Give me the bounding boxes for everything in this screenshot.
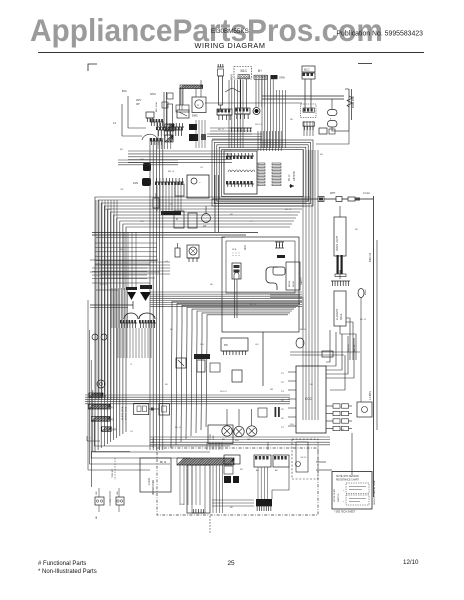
node lo-roundbox bbox=[273, 267, 285, 275]
svg-text:RD 14: RD 14 bbox=[250, 304, 257, 306]
wire mesh-cross-2 bbox=[150, 292, 302, 307]
svg-text:UPPER OVEN: UPPER OVEN bbox=[153, 480, 155, 495]
switch S2 bbox=[197, 360, 205, 372]
svg-text:BN 14: BN 14 bbox=[285, 209, 292, 211]
node date-code bbox=[403, 559, 419, 566]
svg-text:R: R bbox=[176, 217, 178, 221]
wire latch-arrow bbox=[90, 301, 133, 309]
node vbox-2 bbox=[334, 291, 346, 326]
svg-text:BAKE: BAKE bbox=[340, 313, 343, 320]
wire mesh-cross-1 bbox=[100, 262, 170, 274]
node ll-arrow bbox=[87, 436, 100, 441]
wire top-bus1 bbox=[262, 96, 344, 99]
connector bb-comb2 bbox=[192, 509, 205, 513]
node dlt-text bbox=[232, 249, 239, 256]
svg-text:ELEM: ELEM bbox=[293, 281, 295, 287]
node lower-section-box bbox=[153, 448, 318, 515]
wire corner-345 bbox=[330, 355, 345, 390]
connector tl-comb bbox=[230, 128, 252, 132]
svg-text:RD: RD bbox=[355, 229, 359, 231]
wire oven-line3 bbox=[342, 198, 348, 200]
node grn-splice bbox=[271, 75, 285, 80]
wire left-edge-wires bbox=[88, 300, 230, 470]
node ll-dash-v bbox=[112, 458, 115, 480]
node broil-tube bbox=[266, 267, 278, 290]
relay K1 bbox=[177, 110, 189, 118]
svg-text:WHT: WHT bbox=[330, 192, 336, 195]
node door-lock-box bbox=[140, 458, 171, 492]
node dark-bar bbox=[194, 354, 210, 359]
svg-text:P6: P6 bbox=[224, 343, 228, 347]
switch S1 bbox=[176, 358, 186, 368]
node label-col bbox=[113, 89, 127, 125]
wire mesh-right-loop bbox=[303, 150, 318, 420]
svg-text:WH: WH bbox=[290, 424, 294, 426]
wire h-134 bbox=[207, 134, 262, 139]
wire v-bundle-board2 bbox=[262, 75, 286, 148]
node vtext-col1 bbox=[121, 406, 128, 420]
wire bb-tail bbox=[209, 516, 211, 533]
svg-text:GN: GN bbox=[255, 344, 259, 346]
node bb-boxes-1 bbox=[224, 455, 240, 474]
wire long-vert-377 bbox=[376, 240, 378, 430]
connector SV1 bbox=[146, 112, 154, 122]
svg-text:BLK: BLK bbox=[122, 89, 127, 93]
svg-text:B1C: B1C bbox=[241, 69, 248, 73]
wire eoc-left-stubs bbox=[288, 372, 296, 426]
svg-text:GY: GY bbox=[165, 261, 169, 263]
svg-text:WH 14: WH 14 bbox=[255, 124, 262, 126]
svg-text:EOC: EOC bbox=[305, 397, 313, 401]
svg-text:TRIM KIT: TRIM KIT bbox=[112, 468, 114, 478]
wire bb-to-eoc bbox=[316, 462, 332, 470]
op-amp EOC-board bbox=[296, 366, 326, 433]
node label-SSV bbox=[136, 92, 156, 106]
wire bb-corner bbox=[272, 467, 289, 499]
svg-text:BAKE 40W: BAKE 40W bbox=[352, 96, 355, 108]
svg-text:B1C: B1C bbox=[304, 68, 311, 72]
svg-text:Publication No. 5995583423: Publication No. 5995583423 bbox=[336, 31, 423, 38]
lamp OL2 bbox=[328, 118, 338, 132]
svg-text:CAVITY: CAVITY bbox=[300, 277, 303, 285]
svg-text:BRN 14: BRN 14 bbox=[368, 252, 372, 262]
wire capsule-drop bbox=[360, 297, 362, 402]
svg-text:ELEMENT: ELEMENT bbox=[336, 308, 339, 320]
motor M1 bbox=[222, 409, 232, 436]
wire drop-cluster bbox=[158, 131, 171, 149]
svg-text:SSV: SSV bbox=[150, 92, 156, 96]
wire latch-cross bbox=[90, 260, 160, 290]
svg-text:BR 14: BR 14 bbox=[168, 171, 175, 173]
svg-text:12/10: 12/10 bbox=[403, 559, 419, 566]
svg-text:RESISTANCE CHART: RESISTANCE CHART bbox=[336, 479, 360, 482]
node blob2 bbox=[189, 134, 206, 141]
svg-text:GN: GN bbox=[247, 439, 251, 441]
capacitor C2 bbox=[175, 243, 180, 257]
node blob1 bbox=[189, 124, 197, 130]
wire bake-exit bbox=[340, 318, 356, 360]
wire left-entry bbox=[122, 96, 146, 136]
wire mesh-left-top bbox=[96, 200, 117, 400]
svg-text:CONV: CONV bbox=[210, 433, 212, 440]
svg-text:WIRING DIAGRAM: WIRING DIAGRAM bbox=[195, 41, 266, 50]
svg-text:BK 14: BK 14 bbox=[175, 427, 182, 429]
connector J2-top bbox=[155, 178, 184, 185]
diode D1 bbox=[289, 184, 294, 188]
svg-text:WH: WH bbox=[200, 344, 204, 346]
svg-text:BLK 14GA: BLK 14GA bbox=[155, 102, 158, 112]
connector eoc-pin-rows bbox=[326, 404, 352, 431]
svg-text:LP: LP bbox=[203, 224, 207, 228]
connector B1C-1 bbox=[231, 67, 252, 81]
svg-text:MIN: MIN bbox=[244, 245, 247, 250]
wire bus-right bbox=[314, 95, 347, 97]
wire b1c2-drop bbox=[305, 79, 311, 108]
lamp OL1 bbox=[328, 99, 338, 116]
node splice-ring bbox=[253, 108, 260, 115]
wire b1c1-drops bbox=[241, 79, 265, 108]
svg-text:B+: B+ bbox=[258, 69, 262, 73]
node box-pair-a bbox=[134, 403, 149, 414]
svg-text:DOOR OPEN: DOOR OPEN bbox=[334, 489, 336, 502]
node lower-oven-box bbox=[222, 237, 299, 332]
svg-text:WH: WH bbox=[140, 159, 144, 161]
wire oven-line4 bbox=[360, 198, 373, 200]
svg-text:GRN: GRN bbox=[112, 430, 117, 432]
wire b1c2-mate-drops bbox=[304, 121, 313, 136]
node bb-tall-box bbox=[187, 465, 210, 513]
switch dlb-1 bbox=[95, 488, 104, 519]
connector J2-bot bbox=[161, 211, 181, 215]
svg-text:WH 12: WH 12 bbox=[100, 284, 107, 286]
wire resistor-return bbox=[316, 131, 349, 144]
node broil-box bbox=[286, 262, 300, 290]
node oval-2 bbox=[296, 338, 304, 348]
svg-text:* Non-Illustrated Parts: * Non-Illustrated Parts bbox=[38, 569, 97, 575]
connector J9 bbox=[156, 123, 184, 130]
node model-number bbox=[211, 28, 249, 35]
node sub-box bbox=[210, 363, 220, 372]
relay R1-box bbox=[174, 211, 184, 228]
motor EMC bbox=[192, 80, 206, 118]
svg-text:BK 16: BK 16 bbox=[300, 329, 307, 331]
node term-strip-2 bbox=[91, 417, 114, 422]
connector ladder-2 bbox=[272, 163, 281, 186]
wire long-vert-373 bbox=[373, 196, 375, 497]
svg-text:GY: GY bbox=[200, 167, 204, 169]
connector inline-1 bbox=[318, 197, 324, 202]
svg-text:BLACK 14GA: BLACK 14GA bbox=[121, 406, 124, 420]
node page-number bbox=[227, 560, 235, 567]
connector lo-comb1 bbox=[275, 242, 284, 248]
wire eyebrow bbox=[225, 88, 240, 92]
node wire-gauge-labels bbox=[100, 119, 367, 509]
motor fan-M2 bbox=[133, 178, 151, 186]
svg-text:NOTE: RTD SENSOR: NOTE: RTD SENSOR bbox=[336, 476, 359, 478]
wire tl-scatter bbox=[196, 120, 252, 148]
node eoc-left-labels bbox=[281, 373, 284, 429]
svg-text:EI30BM55KS: EI30BM55KS bbox=[211, 28, 249, 35]
wire board-top-drop bbox=[258, 131, 281, 151]
relay latch-1 bbox=[127, 292, 151, 301]
connector bb-conn-2 bbox=[273, 455, 289, 472]
connector latch-comb2 bbox=[139, 320, 156, 328]
svg-text:AB MTR: AB MTR bbox=[292, 171, 296, 181]
node bb-dark-1 bbox=[224, 476, 239, 483]
op-amp control-board U1 bbox=[224, 151, 257, 194]
connector mini-comb1 bbox=[150, 119, 164, 126]
svg-text:14 GA: 14 GA bbox=[363, 192, 370, 195]
wire h-mid-left bbox=[118, 160, 178, 165]
connector emc-top-bar bbox=[176, 85, 203, 112]
svg-text:BK 12: BK 12 bbox=[218, 129, 225, 131]
svg-text:36": 36" bbox=[136, 102, 140, 106]
wire lo-bottomwires bbox=[270, 295, 303, 330]
wire bplus-drops bbox=[0, 0, 1, 1]
svg-text:SENSOR OHMS AT TEMP: SENSOR OHMS AT TEMP bbox=[373, 480, 376, 505]
svg-text:LOCK: LOCK bbox=[147, 478, 151, 485]
lamp L1-circ bbox=[92, 334, 107, 340]
node label-whtline bbox=[330, 192, 370, 195]
svg-text:OR: OR bbox=[120, 189, 124, 191]
wire bb-verticals bbox=[180, 465, 268, 513]
node term-strip-1 bbox=[89, 404, 115, 409]
svg-text:BK 14: BK 14 bbox=[105, 209, 112, 211]
svg-text:# Functional Parts: # Functional Parts bbox=[38, 561, 86, 567]
connector bb-conn-1 bbox=[254, 455, 271, 472]
connector bb-comb bbox=[256, 499, 272, 511]
connector P12 bbox=[235, 108, 250, 119]
connector latch-comb1 bbox=[120, 320, 137, 328]
svg-text:WH: WH bbox=[140, 221, 144, 223]
wire dlt-drop bbox=[235, 279, 238, 318]
node probe-jack bbox=[357, 402, 372, 417]
connector mini-comb2 bbox=[150, 138, 163, 145]
svg-text:MAIN: MAIN bbox=[231, 74, 234, 80]
svg-text:WH: WH bbox=[340, 429, 344, 431]
node corner-mark-left bbox=[88, 64, 97, 71]
node mid-wire-dash bbox=[110, 491, 112, 506]
wire oven-line bbox=[212, 198, 318, 200]
svg-text:BK 14: BK 14 bbox=[160, 462, 167, 464]
connector B1C-2 bbox=[302, 66, 315, 79]
svg-text:* SEE TECH SHEET: * SEE TECH SHEET bbox=[334, 512, 356, 514]
wire v-bundle-board bbox=[229, 80, 243, 148]
wire oven-line2 bbox=[324, 198, 336, 200]
node conn-above-motors bbox=[258, 407, 280, 417]
resistor R-line bbox=[335, 89, 355, 131]
node term-strip-3 bbox=[102, 427, 118, 432]
wire v-pair-165 bbox=[162, 92, 173, 128]
switch dlb-2 bbox=[116, 488, 124, 512]
wire mesh-vert-150 bbox=[150, 138, 163, 450]
node lo-label-cavity bbox=[300, 277, 303, 285]
svg-text:EMC: EMC bbox=[192, 114, 198, 118]
wire bb-wires bbox=[207, 442, 268, 450]
connector inline-4 bbox=[322, 351, 333, 357]
node motor-box bbox=[208, 425, 233, 444]
wire left-mid-mesh bbox=[92, 232, 157, 290]
node J9-ticks bbox=[157, 130, 183, 136]
svg-text:L1 BRN: L1 BRN bbox=[368, 391, 372, 400]
wire drop-eoc-legend bbox=[351, 433, 353, 475]
svg-text:GRN: GRN bbox=[279, 76, 285, 80]
connector vbox-comb bbox=[331, 281, 350, 286]
wire j2-drops bbox=[157, 185, 181, 211]
wire v-263 bbox=[262, 332, 264, 386]
motor M2 bbox=[234, 409, 244, 437]
relay K2 bbox=[175, 184, 184, 196]
wire bb-inner-wires bbox=[212, 500, 254, 506]
capacitor C-cyl bbox=[153, 193, 159, 208]
svg-text:WH 14: WH 14 bbox=[220, 391, 227, 393]
svg-text:OVEN LIGHT: OVEN LIGHT bbox=[336, 235, 339, 251]
relay R2-box bbox=[188, 213, 197, 228]
node fan-upper-blob bbox=[143, 163, 151, 171]
svg-text:YEL 16GA: YEL 16GA bbox=[152, 437, 155, 448]
node latch-dome2 bbox=[139, 313, 155, 319]
node vtext-col2 bbox=[152, 437, 155, 448]
node latch-bars-top bbox=[126, 285, 152, 290]
node label-abmtr bbox=[288, 171, 296, 181]
svg-text:BK 14: BK 14 bbox=[288, 174, 291, 181]
node oval-D bbox=[358, 289, 367, 298]
node vbox-1b bbox=[335, 255, 346, 277]
connector inline-3 bbox=[348, 197, 360, 201]
node title bbox=[195, 41, 266, 50]
wire h-352 bbox=[290, 352, 360, 355]
node label-min bbox=[244, 245, 247, 250]
node watermark bbox=[30, 13, 383, 48]
wire latch-drops bbox=[118, 328, 151, 358]
wire h-into-board bbox=[128, 151, 232, 163]
node wire-labels-v bbox=[348, 344, 356, 352]
wire board-routing-rings bbox=[212, 140, 313, 206]
node ll-bracket bbox=[92, 452, 131, 488]
svg-text:25: 25 bbox=[227, 560, 235, 567]
wire box-pair-link bbox=[149, 408, 159, 411]
wire title-rule bbox=[38, 52, 424, 54]
svg-text:MTR: MTR bbox=[213, 435, 215, 440]
wire v-pair-215 bbox=[215, 175, 219, 232]
node legend-box bbox=[332, 472, 376, 510]
svg-text:FAN: FAN bbox=[133, 181, 138, 185]
connector P6 bbox=[221, 338, 248, 355]
node publication-number bbox=[336, 31, 423, 38]
connector B1C-2-mate bbox=[301, 104, 317, 130]
node box-pair-b bbox=[159, 404, 170, 416]
node latch-dome1 bbox=[124, 313, 138, 319]
wire vbox-feed bbox=[339, 206, 341, 217]
node lo-darkbar bbox=[277, 255, 285, 258]
svg-text:~: ~ bbox=[199, 180, 201, 184]
node motor-labels bbox=[222, 439, 251, 442]
fuse chimney bbox=[217, 64, 224, 112]
lamp LP bbox=[202, 206, 211, 228]
wire emc-top-wires bbox=[180, 88, 183, 110]
wire mid-band-corners bbox=[171, 302, 302, 449]
wire h-bundle-395 bbox=[85, 395, 290, 404]
wire left-loop-bundle bbox=[95, 197, 310, 452]
wire corner-mark-right bbox=[358, 63, 372, 65]
node small-motor bbox=[89, 380, 107, 398]
svg-text:RD: RD bbox=[200, 459, 204, 461]
relay K3 bbox=[232, 370, 242, 382]
connector board-bottom-pins bbox=[226, 181, 254, 187]
wire eoc-entry-loops bbox=[326, 330, 354, 378]
svg-text:GY: GY bbox=[130, 431, 134, 433]
wire h-bundle-437 bbox=[150, 437, 330, 445]
node label-vert373 bbox=[368, 252, 372, 400]
motor M3 bbox=[247, 409, 257, 436]
svg-text:WHITE 14GA: WHITE 14GA bbox=[125, 406, 128, 420]
node vbox-1 bbox=[334, 217, 346, 256]
connector B2+ bbox=[254, 69, 267, 79]
svg-text:WH: WH bbox=[180, 504, 184, 506]
wire top-bus2 bbox=[205, 102, 302, 104]
svg-text:SWITCH: SWITCH bbox=[338, 493, 340, 502]
connector chimney-bar bbox=[217, 109, 232, 120]
switch arc bbox=[142, 134, 157, 140]
svg-text:MEAT: MEAT bbox=[364, 289, 367, 295]
svg-text:GN 16: GN 16 bbox=[300, 457, 307, 459]
motor conv-fan bbox=[187, 245, 199, 262]
node legend-caption bbox=[334, 512, 356, 514]
connector ladder-1 bbox=[258, 163, 265, 186]
svg-text:RD: RD bbox=[290, 119, 294, 121]
wire vbox-drop bbox=[339, 270, 341, 279]
wire h-232 bbox=[92, 233, 258, 238]
node footer-nonillustrated bbox=[38, 569, 97, 575]
node optional-module bbox=[292, 439, 318, 479]
node board-arcs bbox=[228, 170, 255, 172]
connector board-right-tap bbox=[319, 128, 335, 134]
connector board-top-pins bbox=[226, 153, 254, 159]
svg-text:GY: GY bbox=[110, 498, 112, 502]
connector inline-2 bbox=[336, 197, 342, 202]
node striped-pair bbox=[165, 124, 174, 142]
svg-text:BROIL: BROIL bbox=[289, 280, 291, 287]
node ssv-minibox bbox=[155, 93, 173, 112]
wire latch-mesh bbox=[112, 288, 128, 328]
node hatch-bar-bb bbox=[160, 458, 234, 465]
svg-text:BR: BR bbox=[270, 389, 273, 391]
node footer-functional bbox=[38, 561, 86, 567]
svg-text:WH: WH bbox=[235, 440, 239, 442]
svg-text:DLB: DLB bbox=[232, 249, 237, 251]
svg-text:BK 16: BK 16 bbox=[360, 319, 367, 321]
transformer T1 bbox=[187, 175, 209, 198]
switch dlt-switch bbox=[232, 263, 241, 279]
